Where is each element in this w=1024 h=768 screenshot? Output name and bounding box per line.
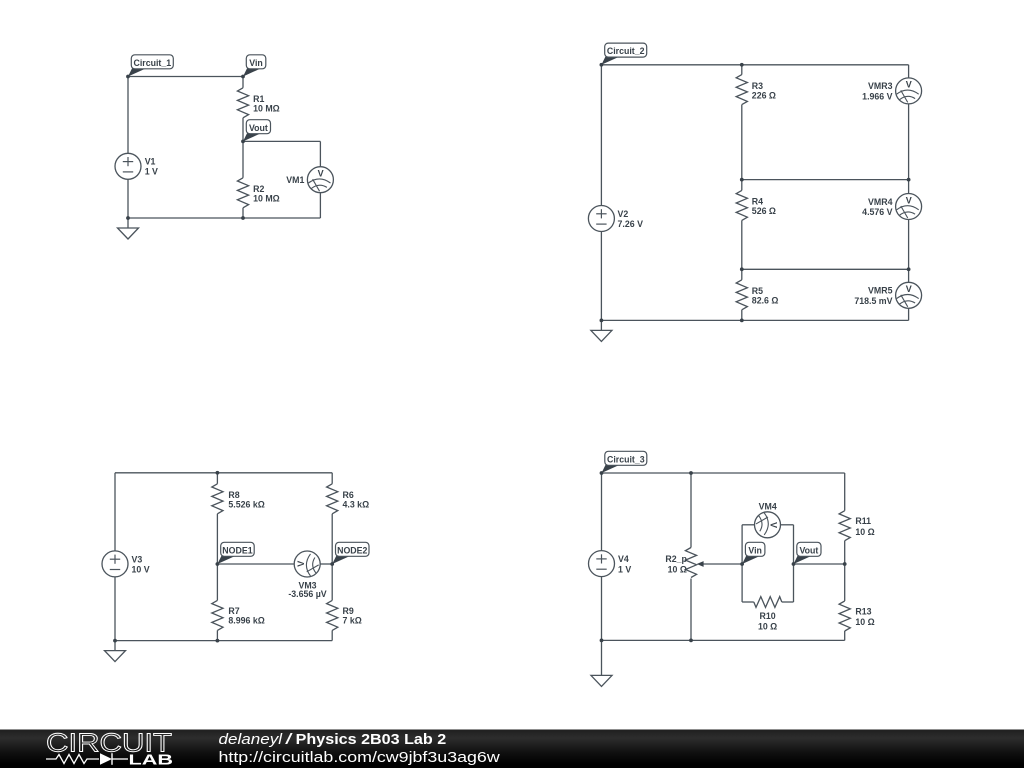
svg-text:Vout: Vout: [249, 123, 268, 133]
svg-text:7.26 V: 7.26 V: [618, 219, 644, 229]
svg-text:R11: R11: [855, 516, 871, 526]
svg-text:http://circuitlab.com/cw9jbf3u: http://circuitlab.com/cw9jbf3u3ag6w: [219, 750, 501, 766]
svg-text:10 MΩ: 10 MΩ: [253, 104, 280, 114]
svg-text:NODE1: NODE1: [222, 545, 252, 555]
svg-text:LAB: LAB: [129, 752, 174, 768]
svg-text:V: V: [906, 284, 912, 294]
svg-text:10 Ω: 10 Ω: [855, 527, 874, 537]
svg-text:Vin: Vin: [748, 545, 762, 555]
svg-text:4.3 kΩ: 4.3 kΩ: [343, 500, 370, 510]
svg-text:10 MΩ: 10 MΩ: [253, 194, 280, 204]
svg-text:1 V: 1 V: [145, 167, 158, 177]
svg-text:82.6 Ω: 82.6 Ω: [752, 296, 779, 306]
svg-text:R3: R3: [752, 81, 763, 91]
svg-text:R2: R2: [253, 184, 264, 194]
svg-text:VMR3: VMR3: [868, 81, 893, 91]
svg-text:R6: R6: [343, 490, 354, 500]
svg-text:R2_p: R2_p: [665, 554, 687, 564]
svg-text:5.526 kΩ: 5.526 kΩ: [228, 500, 264, 510]
svg-text:V2: V2: [618, 209, 629, 219]
svg-text:Circuit_3: Circuit_3: [607, 454, 645, 464]
svg-text:delaneyl/Physics 2B03 Lab 2: delaneyl/Physics 2B03 Lab 2: [219, 732, 447, 748]
svg-text:Vout: Vout: [799, 545, 818, 555]
svg-text:V1: V1: [145, 156, 156, 166]
svg-text:V3: V3: [132, 554, 143, 564]
svg-text:VMR5: VMR5: [868, 286, 893, 296]
svg-text:R5: R5: [752, 286, 763, 296]
svg-text:10 Ω: 10 Ω: [855, 617, 874, 627]
svg-text:V: V: [296, 561, 306, 567]
svg-text:R7: R7: [228, 606, 239, 616]
svg-text:7 kΩ: 7 kΩ: [343, 615, 362, 625]
svg-text:10 V: 10 V: [132, 565, 150, 575]
svg-text:V: V: [318, 169, 324, 179]
svg-text:R10: R10: [760, 611, 776, 621]
svg-text:526 Ω: 526 Ω: [752, 206, 776, 216]
svg-text:10 Ω: 10 Ω: [758, 622, 777, 632]
svg-text:VMR4: VMR4: [868, 197, 893, 207]
svg-text:VM4: VM4: [759, 501, 777, 511]
svg-text:V: V: [769, 522, 779, 528]
svg-text:V4: V4: [618, 554, 629, 564]
svg-text:8.996 kΩ: 8.996 kΩ: [228, 615, 264, 625]
svg-text:-3.656 µV: -3.656 µV: [288, 589, 326, 599]
svg-text:R4: R4: [752, 197, 763, 207]
svg-text:Circuit_2: Circuit_2: [607, 46, 645, 56]
svg-text:1 V: 1 V: [618, 564, 631, 574]
svg-text:V: V: [906, 195, 912, 205]
svg-text:R9: R9: [343, 606, 354, 616]
svg-text:VM1: VM1: [286, 175, 304, 185]
svg-text:4.576 V: 4.576 V: [862, 207, 892, 217]
svg-text:R1: R1: [253, 94, 264, 104]
svg-text:R13: R13: [855, 606, 871, 616]
svg-text:226 Ω: 226 Ω: [752, 90, 776, 100]
svg-text:Circuit_1: Circuit_1: [133, 58, 171, 68]
svg-text:V: V: [906, 80, 912, 90]
svg-text:10 Ω: 10 Ω: [668, 564, 687, 574]
svg-text:1.966 V: 1.966 V: [862, 91, 892, 101]
svg-text:R8: R8: [228, 490, 239, 500]
svg-text:718.5 mV: 718.5 mV: [854, 296, 892, 306]
svg-text:Vin: Vin: [249, 58, 263, 68]
svg-text:NODE2: NODE2: [337, 545, 367, 555]
